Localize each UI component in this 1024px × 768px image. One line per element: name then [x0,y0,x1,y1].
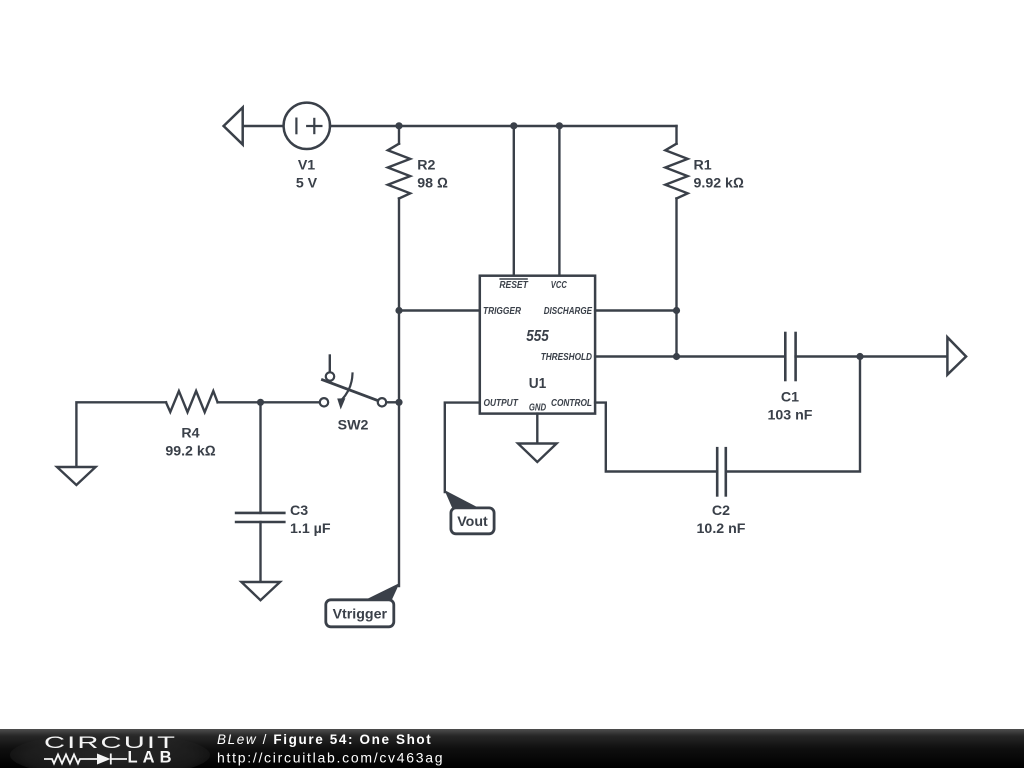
wire vcc pin [558,126,560,276]
svg-text:R4: R4 [181,426,199,442]
svg-text:DISCHARGE: DISCHARGE [544,306,593,317]
wire discharge pin [595,309,676,311]
svg-text:10.2 nF: 10.2 nF [697,521,746,537]
svg-text:9.92 kΩ: 9.92 kΩ [694,176,744,192]
wire trigger pin [399,309,480,311]
node top rail / vcc [556,122,563,129]
node top rail / reset [510,122,517,129]
resistor R2 [388,126,410,311]
svg-text:http://circuitlab.com/cv463ag: http://circuitlab.com/cv463ag [217,750,444,766]
capacitor C3 [236,402,284,582]
svg-text:1.1 µF: 1.1 µF [290,521,331,537]
svg-text:THRESHOLD: THRESHOLD [541,352,593,363]
flag Vout [444,490,494,534]
svg-text:TRIGGER: TRIGGER [483,306,522,317]
wire SW2 to trigger node [386,401,399,403]
node trigger tee [395,307,402,314]
component value labels [165,157,812,537]
node output net / C2 [856,353,863,360]
footer bar [0,729,1024,768]
port IN (left arrow) [224,108,243,145]
svg-text:CONTROL: CONTROL [551,398,592,409]
wire trigger vertical lower [398,311,400,587]
node threshold / R1 [673,353,680,360]
wire C2 branch [726,357,860,472]
svg-text:RESET: RESET [499,280,528,291]
node SW2 / trigger [395,399,402,406]
wire output pin [445,403,480,492]
logo resistor-diode glyph [44,754,127,765]
port OUT (right arrow) [947,337,966,375]
ground (U1 GND) [518,444,557,463]
wire port to V1 [243,125,284,127]
svg-text:99.2 kΩ: 99.2 kΩ [165,443,215,459]
node R4 / C3 [257,399,264,406]
svg-text:CIRCUIT: CIRCUIT [44,734,177,752]
capacitor C1 [677,333,948,380]
svg-text:5 V: 5 V [296,176,318,192]
svg-text:103 nF: 103 nF [768,407,813,423]
svg-text:LAB: LAB [128,749,174,767]
U1 pin labels [483,279,593,414]
resistor R1 [665,126,687,357]
wire control pin [595,403,717,472]
svg-text:VCC: VCC [551,280,567,291]
capacitor C2 [717,448,726,495]
svg-text:OUTPUT: OUTPUT [484,398,519,409]
resistor R4 [166,391,320,412]
svg-text:GND: GND [529,403,547,414]
node top rail / R2 [395,122,402,129]
wire reset pin [513,126,515,276]
svg-text:C2: C2 [712,503,730,519]
junction dots [257,122,864,406]
wire gnd pin [536,414,538,444]
ground (below C3) [241,582,280,600]
svg-text:BLew / Figure 54: One Shot: BLew / Figure 54: One Shot [217,732,432,747]
svg-text:SW2: SW2 [338,418,369,434]
wire threshold pin [595,355,676,357]
voltage source V1 [284,103,330,149]
svg-text:98 Ω: 98 Ω [417,176,448,192]
svg-text:Vout: Vout [457,514,488,530]
svg-text:R2: R2 [417,157,435,173]
svg-text:C1: C1 [781,389,799,405]
svg-text:U1: U1 [529,375,547,392]
wire top rail [330,125,677,127]
svg-text:V1: V1 [298,157,315,173]
svg-text:C3: C3 [290,503,308,519]
node discharge / R1 [673,307,680,314]
op-amp U1 body (555 timer box) [480,276,595,414]
flag Vtrigger [326,583,400,627]
ground (left of R4) [57,402,166,485]
svg-text:R1: R1 [694,157,712,173]
svg-text:555: 555 [526,328,549,345]
svg-text:Vtrigger: Vtrigger [333,607,388,623]
switch SW2 [320,356,386,410]
